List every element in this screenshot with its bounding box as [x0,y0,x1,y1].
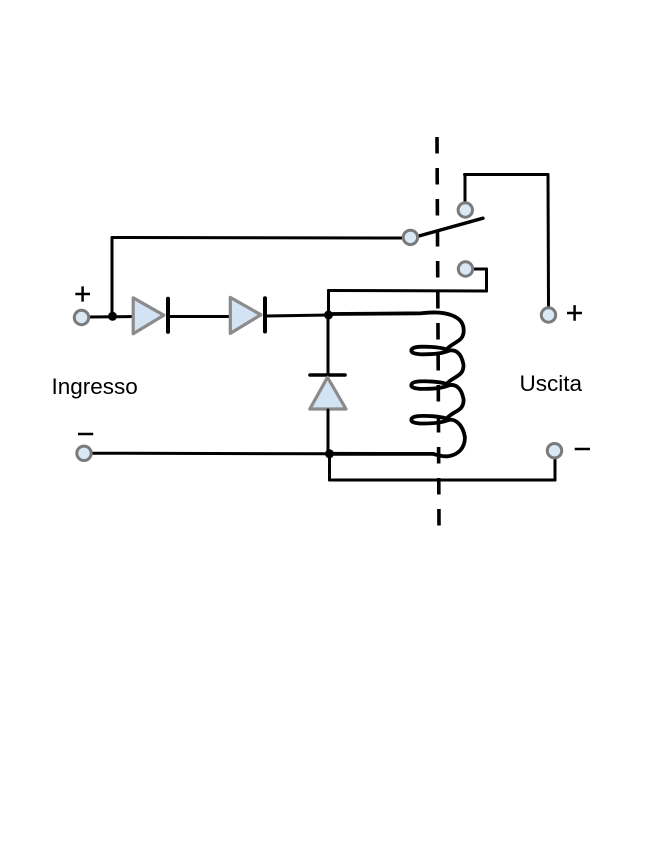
wire output minus riser [554,459,557,481]
wire input minus lead [92,452,330,456]
switch arm [417,218,483,236]
wire input plus lead [89,315,134,319]
node A [324,311,333,320]
wire NO contact up [464,175,467,202]
wire NC stub [474,268,487,271]
diode D1 [133,298,168,334]
wire bottom horizontal [330,479,556,482]
terminal NC contact [458,262,472,276]
terminal output plus [541,308,555,322]
flyback diode D3 [310,313,346,454]
wire top-left vertical from node N1 up [111,238,114,317]
terminal output minus [547,444,561,458]
node N1 [108,312,117,321]
wire top right horizontal [465,173,549,176]
wire horizontal to NC contact riser [329,289,487,293]
wire from D2 to node A [266,315,329,316]
wire between diodes D1 and D2 [169,315,230,318]
wire node B down [328,454,331,480]
terminal NO contact [458,203,472,217]
label plus input [75,286,90,301]
label plus output [567,305,582,321]
dashed separator line [437,137,439,526]
svg-text:Ingresso: Ingresso [52,374,138,399]
label minus output [575,448,590,451]
node B [325,449,334,458]
diode D2 [230,297,265,333]
wire top horizontal to switch pivot [112,236,402,240]
terminal input plus [74,310,88,324]
svg-text:Uscita: Uscita [520,371,583,396]
wire output plus riser [547,175,551,307]
label minus input [78,433,93,436]
terminal switch pivot [403,230,417,244]
wire node A up [327,291,330,316]
wire NC riser [485,269,488,291]
terminal input minus [77,446,91,460]
relay coil L1 [329,312,465,456]
